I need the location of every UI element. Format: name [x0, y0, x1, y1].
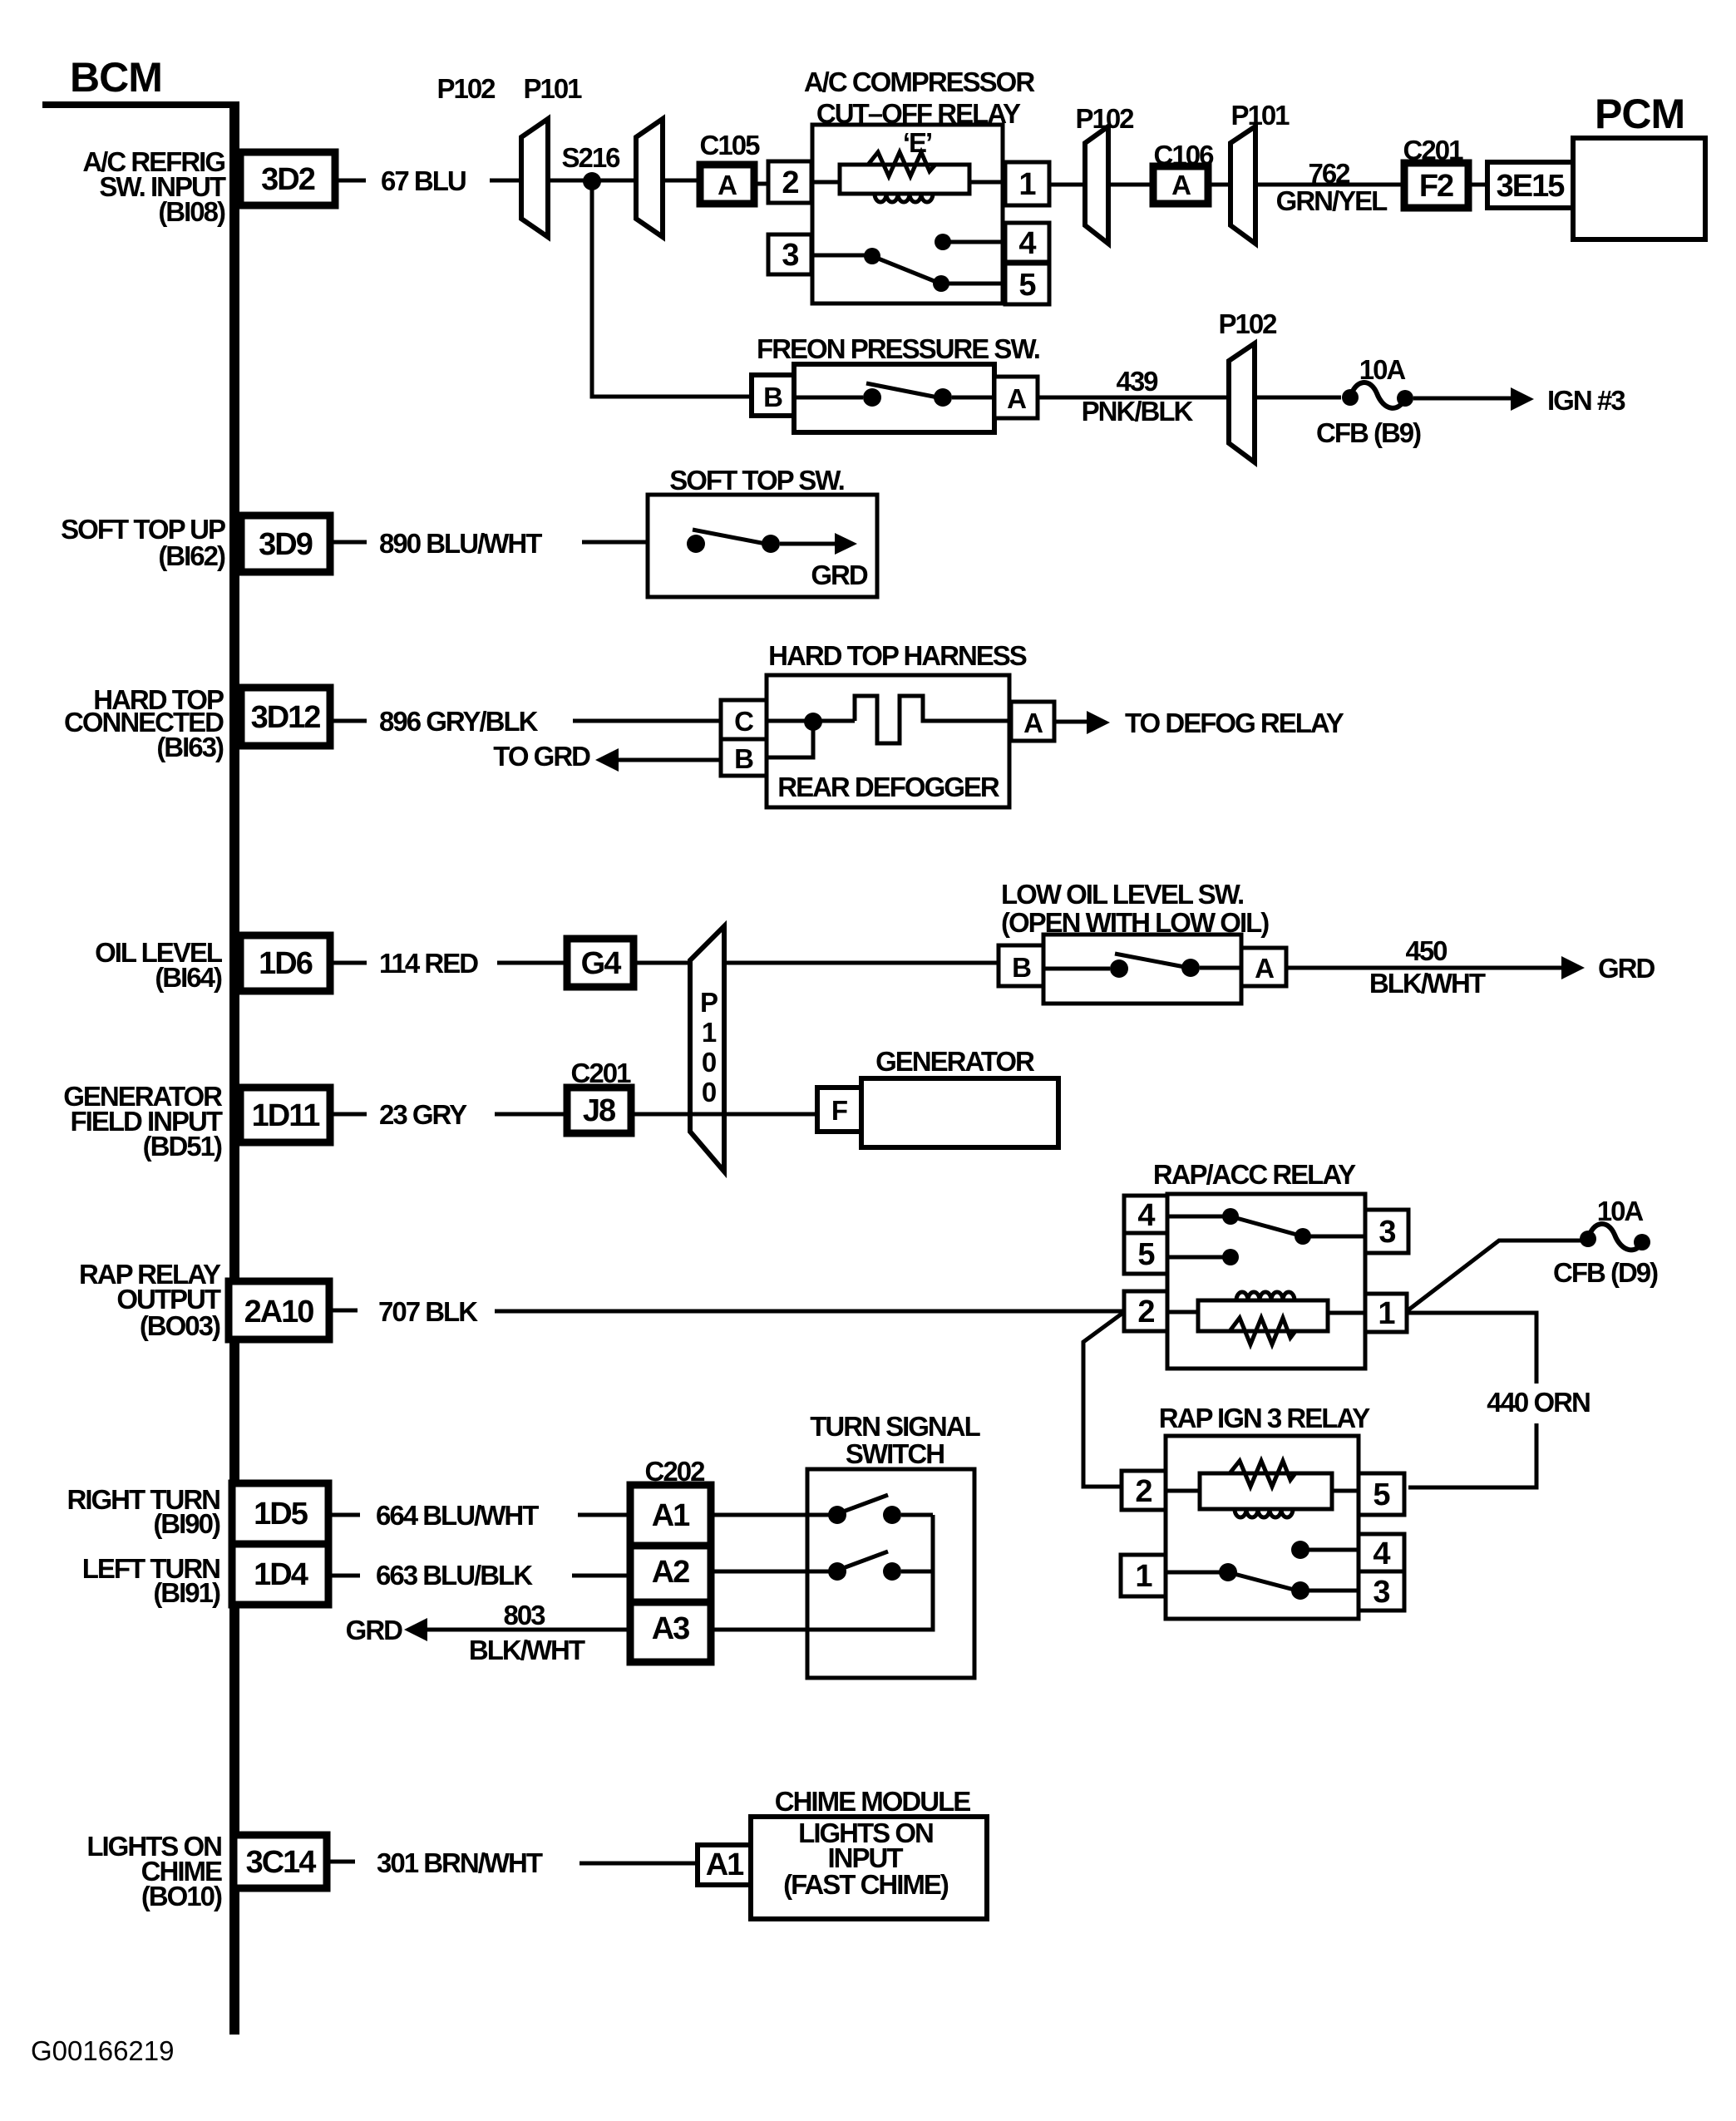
svg-text:114 RED: 114 RED [379, 948, 478, 979]
svg-text:BLK/WHT: BLK/WHT [1369, 968, 1486, 999]
freon pressure switch pin A [994, 377, 1038, 418]
chime module pin A1 [698, 1845, 751, 1885]
relay K1 pin 1 [1005, 162, 1049, 205]
pin label SOFT TOP UP (BI62) [61, 514, 225, 571]
pin 2A10 [229, 1281, 329, 1339]
svg-text:PNK/BLK: PNK/BLK [1082, 396, 1194, 427]
low oil level switch S3 [1001, 879, 1269, 1004]
svg-text:S216: S216 [561, 142, 620, 173]
connector P102 (row 1 left) [436, 73, 548, 237]
wire GRD 803 BLK/WHT [346, 1600, 630, 1665]
relay K2 pin 1 [1365, 1294, 1407, 1332]
svg-text:23 GRY: 23 GRY [379, 1099, 467, 1130]
svg-text:A1: A1 [706, 1847, 744, 1882]
junction node in harness [767, 713, 855, 757]
wire 762 GRN/YEL [1208, 158, 1408, 216]
svg-text:A1: A1 [652, 1498, 690, 1533]
relay K3 pin 2 [1122, 1471, 1166, 1510]
wire relay K2 pin 1 to fuse [1407, 1241, 1581, 1311]
pin label A/C REFRIG SW. INPUT (BI08) [82, 146, 226, 227]
relay K2 coil with parallel resistor [1167, 1292, 1365, 1344]
svg-text:LOW OIL LEVEL SW.: LOW OIL LEVEL SW. [1001, 879, 1243, 910]
svg-text:B: B [763, 382, 782, 412]
connector C201 pin F2 [1403, 135, 1468, 208]
svg-text:803: 803 [503, 1600, 545, 1630]
wire F2 to 3E15 [1468, 183, 1487, 187]
svg-text:1: 1 [1378, 1296, 1395, 1331]
svg-text:4: 4 [1018, 226, 1036, 261]
svg-text:439: 439 [1116, 366, 1158, 397]
svg-text:A3: A3 [652, 1611, 689, 1646]
fuse 10A CFB (B9) [1316, 354, 1421, 448]
svg-text:A: A [1023, 708, 1043, 738]
svg-text:A/C COMPRESSOR: A/C COMPRESSOR [804, 67, 1036, 97]
svg-text:(BO03): (BO03) [140, 1310, 220, 1341]
svg-text:HARD TOP HARNESS: HARD TOP HARNESS [768, 640, 1027, 671]
pin label LEFT TURN (BI91) [82, 1553, 220, 1608]
connector P102 (freon row) [1218, 308, 1277, 462]
pin label LIGHTS ON CHIME (BO10) [86, 1831, 222, 1911]
svg-text:3: 3 [1378, 1215, 1395, 1250]
svg-text:707 BLK: 707 BLK [378, 1296, 478, 1327]
A/C compressor cut-off relay K1 [804, 67, 1036, 303]
wire P101 to C105 [663, 179, 700, 183]
svg-text:C: C [734, 706, 753, 737]
svg-text:TO DEFOG RELAY: TO DEFOG RELAY [1125, 708, 1344, 738]
wire fuse to IGN #3 [1413, 385, 1625, 416]
node S216 [561, 142, 620, 190]
RAP/ACC relay K2 [1153, 1159, 1365, 1369]
BCM vertical bus bar [229, 101, 239, 2035]
hard top harness connector pin B [721, 739, 767, 776]
svg-text:TO GRD: TO GRD [493, 741, 590, 772]
svg-text:PCM: PCM [1595, 91, 1684, 137]
wire 67 BLU [335, 165, 548, 196]
wire C105 to relay pin 2 [754, 182, 768, 186]
pin 1D5 [232, 1483, 328, 1544]
wire 440 ORN [1407, 1313, 1590, 1487]
pin 3D9 [241, 515, 330, 572]
svg-text:67 BLU: 67 BLU [381, 165, 466, 196]
svg-text:3C14: 3C14 [246, 1845, 317, 1880]
svg-text:896 GRY/BLK: 896 GRY/BLK [379, 706, 539, 737]
svg-text:A: A [1255, 953, 1274, 984]
svg-text:663 BLU/BLK: 663 BLU/BLK [376, 1560, 533, 1591]
wire segment P102 to P101 with S216 [548, 179, 663, 183]
svg-text:P101: P101 [1230, 100, 1290, 131]
relay K3 pin 5 [1359, 1473, 1404, 1515]
svg-text:A: A [1007, 383, 1026, 414]
connector C105 pin A [700, 130, 761, 204]
svg-text:G00166219: G00166219 [31, 2035, 175, 2066]
svg-text:440 ORN: 440 ORN [1487, 1387, 1590, 1418]
TO DEFOG RELAY arrow [1054, 708, 1344, 738]
wire 114 RED [330, 948, 999, 979]
svg-text:SWITCH: SWITCH [846, 1438, 944, 1469]
relay K2 pin 4 [1124, 1196, 1167, 1233]
pin 3D12 [241, 688, 330, 746]
svg-text:(BI64): (BI64) [155, 962, 222, 993]
svg-text:RAP/ACC RELAY: RAP/ACC RELAY [1153, 1159, 1356, 1190]
svg-text:‘E’: ‘E’ [903, 127, 931, 158]
relay K3 pin 4 [1359, 1534, 1404, 1571]
pin 3D2 [240, 152, 335, 205]
wire 301 BRN/WHT [327, 1847, 698, 1878]
svg-text:(BI90): (BI90) [153, 1508, 220, 1539]
svg-text:C105: C105 [700, 130, 761, 160]
svg-text:P: P [700, 987, 718, 1018]
generator box [861, 1046, 1058, 1147]
svg-text:FREON PRESSURE SW.: FREON PRESSURE SW. [757, 333, 1039, 364]
svg-text:REAR DEFOGGER: REAR DEFOGGER [777, 772, 1000, 802]
svg-text:4: 4 [1373, 1536, 1390, 1571]
connector P102 (row 1 right) [1075, 103, 1134, 244]
svg-text:J8: J8 [583, 1093, 615, 1128]
wire 896 GRY/BLK [330, 706, 721, 737]
svg-text:(BD51): (BD51) [143, 1131, 222, 1162]
svg-text:5: 5 [1018, 268, 1036, 303]
svg-text:GRD: GRD [1598, 953, 1655, 984]
low oil level switch pin B [999, 945, 1043, 986]
svg-text:762: 762 [1308, 158, 1350, 189]
connector C201 pin G4 [567, 939, 634, 987]
svg-text:P102: P102 [1218, 308, 1277, 339]
chime module box [751, 1786, 987, 1919]
svg-text:4: 4 [1137, 1198, 1155, 1233]
relay K1 pin 5 [1005, 264, 1049, 304]
relay K2 pin 3 [1365, 1210, 1408, 1253]
pin label RIGHT TURN (BI90) [67, 1484, 220, 1539]
svg-text:890 BLU/WHT: 890 BLU/WHT [379, 528, 542, 559]
wire 664 BLU/WHT [328, 1500, 630, 1531]
svg-text:GRD: GRD [811, 560, 868, 590]
svg-text:(FAST CHIME): (FAST CHIME) [783, 1869, 949, 1900]
hard top harness / rear defogger box [767, 640, 1027, 807]
hard top harness connector pin C [721, 700, 767, 739]
svg-text:5: 5 [1137, 1237, 1155, 1272]
relay K3 switch contacts [1166, 1541, 1359, 1600]
relay K2 switch contacts [1167, 1208, 1365, 1265]
svg-text:1D5: 1D5 [254, 1497, 308, 1532]
wire 439 PNK/BLK [1038, 366, 1341, 427]
svg-text:GENERATOR: GENERATOR [875, 1046, 1035, 1077]
svg-text:CFB (B9): CFB (B9) [1316, 417, 1421, 448]
svg-text:1D4: 1D4 [254, 1557, 308, 1592]
svg-text:F2: F2 [1419, 169, 1453, 204]
pin 1D6 [240, 935, 330, 991]
svg-text:301 BRN/WHT: 301 BRN/WHT [377, 1847, 543, 1878]
svg-text:IGN #3: IGN #3 [1547, 385, 1625, 416]
relay K1 pin 2 [768, 161, 811, 203]
relay K2 pin 2 [1124, 1291, 1167, 1331]
pin label RAP RELAY OUTPUT (BO03) [79, 1259, 221, 1341]
TO GRD arrow [493, 741, 721, 772]
svg-text:5: 5 [1373, 1477, 1390, 1512]
relay K1 coil with parallel resistor 'E' [811, 152, 1005, 202]
pin 1D11 [240, 1088, 330, 1142]
relay K1 switch contacts [811, 234, 1005, 292]
PCM pin 3E15 [1487, 162, 1573, 208]
fuse 10A CFB (D9) [1553, 1196, 1658, 1288]
svg-text:B: B [734, 743, 753, 774]
relay K3 pin 1 [1121, 1555, 1166, 1596]
hard top harness pin A [1011, 702, 1054, 741]
svg-text:G4: G4 [581, 946, 622, 981]
wire relay K2 pin 2 to RAP IGN 3 relay pin 2 [1083, 1312, 1124, 1487]
relay K3 pin 3 [1359, 1571, 1404, 1610]
connector P101 (row 1 right) [1230, 100, 1290, 244]
relay K1 pin 3 [768, 234, 811, 274]
svg-text:A: A [1171, 170, 1191, 200]
PCM module [1573, 91, 1705, 239]
svg-text:P102: P102 [436, 73, 496, 104]
svg-text:BLK/WHT: BLK/WHT [469, 1635, 585, 1665]
connector P101 (row 1 left) [523, 73, 663, 237]
svg-text:(BI63): (BI63) [156, 732, 224, 762]
svg-text:1: 1 [702, 1017, 717, 1048]
svg-text:3E15: 3E15 [1497, 169, 1566, 204]
svg-text:(BI08): (BI08) [158, 196, 225, 227]
relay K3 coil with parallel resistor [1166, 1461, 1359, 1517]
svg-text:2: 2 [1135, 1474, 1152, 1509]
svg-text:0: 0 [702, 1047, 716, 1078]
turn signal switch left turn contacts [711, 1551, 933, 1581]
svg-text:(BO10): (BO10) [141, 1881, 222, 1911]
wire common return to A3 [711, 1515, 933, 1630]
low oil level switch pin A [1241, 948, 1286, 986]
freon pressure switch S1 [757, 333, 1039, 432]
svg-text:3D2: 3D2 [261, 162, 315, 197]
svg-text:3: 3 [782, 238, 798, 273]
svg-text:SOFT TOP SW.: SOFT TOP SW. [669, 465, 843, 496]
connector C202 pins A1 A2 A3 [630, 1456, 711, 1662]
svg-text:RAP IGN 3 RELAY: RAP IGN 3 RELAY [1159, 1403, 1370, 1433]
svg-text:A: A [718, 170, 737, 200]
svg-text:CHIME MODULE: CHIME MODULE [775, 1786, 970, 1817]
BCM top line [42, 101, 239, 108]
svg-text:P101: P101 [523, 73, 582, 104]
wire 23 GRY [330, 1099, 817, 1130]
connector C106 pin A [1153, 140, 1214, 204]
svg-text:F: F [831, 1095, 847, 1126]
pin 3C14 [234, 1835, 327, 1888]
svg-text:2: 2 [782, 165, 798, 200]
wire 663 BLU/BLK [328, 1560, 630, 1591]
svg-text:1D6: 1D6 [259, 946, 313, 981]
relay K1 pin 4 [1005, 223, 1049, 262]
svg-text:GRN/YEL: GRN/YEL [1276, 185, 1388, 216]
connector P100 [690, 926, 724, 1171]
pin label OIL LEVEL (BI64) [95, 937, 223, 993]
svg-text:(BI62): (BI62) [158, 540, 225, 571]
svg-text:1: 1 [1135, 1559, 1152, 1594]
svg-text:664 BLU/WHT: 664 BLU/WHT [376, 1500, 539, 1531]
RAP IGN 3 relay K3 [1159, 1403, 1370, 1619]
svg-text:TURN SIGNAL: TURN SIGNAL [810, 1411, 980, 1442]
wire relay pin1 to P102 [1049, 183, 1153, 187]
svg-text:0: 0 [702, 1077, 716, 1107]
svg-text:450: 450 [1405, 935, 1447, 966]
wire 707 BLK [329, 1296, 1124, 1327]
svg-text:(BI91): (BI91) [153, 1577, 220, 1608]
svg-text:3D12: 3D12 [251, 700, 321, 735]
svg-text:C201: C201 [571, 1058, 632, 1088]
svg-text:B: B [1012, 952, 1031, 983]
relay K2 pin 5 [1124, 1233, 1167, 1274]
svg-text:GRD: GRD [346, 1615, 403, 1645]
wire 450 BLK/WHT to GRD [1286, 935, 1655, 999]
svg-text:BCM: BCM [70, 54, 162, 101]
soft top switch S2 [648, 465, 877, 597]
svg-text:1D11: 1D11 [252, 1098, 321, 1133]
connector C201 pin J8 [567, 1058, 631, 1133]
svg-text:A2: A2 [652, 1555, 689, 1590]
svg-text:2: 2 [1137, 1295, 1154, 1329]
pin label GENERATOR FIELD INPUT (BD51) [63, 1081, 223, 1162]
pin 1D4 [232, 1544, 328, 1605]
svg-text:CFB (D9): CFB (D9) [1553, 1257, 1658, 1288]
turn signal switch right turn contacts [711, 1495, 933, 1524]
freon pressure switch pin B [752, 375, 794, 416]
wire 890 BLU/WHT [330, 528, 687, 559]
rear defogger grid element [855, 696, 1011, 743]
wire S216 to freon pressure switch [592, 181, 752, 397]
pin label HARD TOP CONNECTED (BI63) [64, 684, 224, 762]
generator pin F [817, 1088, 861, 1132]
svg-text:1: 1 [1018, 167, 1036, 202]
svg-text:2A10: 2A10 [244, 1295, 314, 1329]
turn signal switch S4 [807, 1411, 981, 1678]
svg-text:3: 3 [1373, 1575, 1389, 1610]
svg-text:3D9: 3D9 [259, 527, 313, 562]
